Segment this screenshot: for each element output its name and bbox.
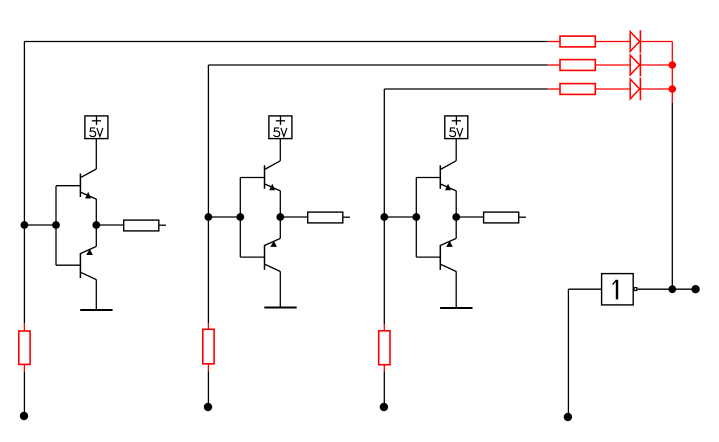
transistor Q3 (upper) [265,161,281,191]
wire output node to Q6 [455,217,457,239]
wire U1 input vertical [567,289,569,417]
wire Q3 emitter to output node [279,191,281,217]
terminal dot circuit 1 [20,412,28,420]
resistor R5 (red) [203,329,214,364]
wire R9 to D3 (red) [595,88,630,90]
transistor Q4 (lower) [265,238,281,271]
wire base stub Q1 [56,185,80,187]
wire R7 left pin stub (red) [548,41,560,43]
junction output node circuit 2 [276,213,284,221]
wire OR rail vertical (red segment) [671,42,673,104]
transistor Q2 (lower) [80,246,96,279]
resistor R8 (red) [560,60,595,71]
wire Q6 to ground [455,271,457,308]
wire base stub Q5 [416,177,440,179]
wire R5 bottom pin stub (red) [207,364,209,371]
wire V2 to Q3 collector [279,139,281,161]
junction base tie circuit 1 [52,221,60,229]
5V source V3 [445,116,468,139]
wire R8 to D2 (red) [595,64,630,66]
resistor R6 (red) [379,331,390,365]
resistor R2 [308,212,343,223]
wire R7 to D1 (red) [595,41,630,43]
wire OR rail to output terminal [672,288,695,290]
resistor R9 (red) [560,84,595,95]
wire OR rail vertical (black segment) [671,103,673,289]
wire input rail circuit 1 (vertical x=24) [23,42,25,324]
ground circuit 1 [80,309,112,311]
resistor R4 (red) [19,331,30,364]
wire input to base tie circuit 2 [208,216,240,218]
wire output node to Q2 [95,225,97,247]
junction rail circuit 3 [380,213,388,221]
wire base tie Q1/Q2 (vertical x=56) [55,186,57,266]
wire R3 right stub [519,216,526,218]
wire R4 to terminal [23,372,25,416]
wire V1 to Q1 collector [95,139,97,169]
wire D1 to OR rail (red) [640,41,672,43]
wire input to base tie circuit 3 [384,216,416,218]
junction D3 on OR rail (red) [669,85,677,93]
junction D2 on OR rail (red) [669,61,677,69]
diode D1 (red) [630,30,640,53]
5V source V2 [269,116,292,139]
wire input to base tie circuit 1 [24,224,56,226]
wire U1 output [637,288,672,290]
junction output node circuit 1 [92,221,100,229]
wire base stub Q2 [56,264,80,266]
ground circuit 2 [264,306,296,308]
wire R1 right stub [159,224,166,226]
wire input rail circuit 2 (vertical x=208) [207,65,209,323]
wire R5 to terminal [207,371,209,407]
wire net IN3 horizontal (input 3 to R9) [384,88,548,90]
wire Q2 to ground [95,279,97,310]
wire rail to R5 (red pin stub) [207,323,209,329]
junction U1 output / OR rail [668,285,676,293]
diode D3 (red) [630,78,640,101]
wire base stub Q6 [416,256,440,258]
wire R9 left pin stub (red) [548,88,560,90]
wire output node to R2 [280,216,307,218]
wire R6 to terminal [383,372,385,408]
wire R2 right stub [343,216,350,218]
wire input rail circuit 3 (vertical x=384) [383,89,385,324]
wire R6 bottom pin stub (red) [383,365,385,372]
transistor Q5 (upper) [440,161,456,191]
junction output node circuit 3 [452,213,460,221]
transistor Q6 (lower) [440,238,456,271]
wire output node to Q4 [279,217,281,239]
resistor R7 (red) [560,36,595,47]
wire net IN1 horizontal (input 1 to R7) [24,41,547,43]
terminal dot circuit 3 [380,403,388,411]
terminal dot output [691,285,699,293]
diode D2 (red) [630,54,640,77]
transistor Q1 (upper) [80,169,96,199]
wire Q4 to ground [279,271,281,307]
junction rail circuit 1 [21,221,29,229]
resistor R1 [124,220,159,231]
ground circuit 3 [440,307,472,309]
wire Q5 emitter to output node [455,191,457,217]
wire base tie Q3/Q4 (vertical x=240) [239,178,241,258]
wire U1 input horizontal [568,288,601,290]
wire rail to R6 (red pin stub) [383,324,385,331]
resistor R3 [484,212,519,223]
wire output node to R3 [456,216,483,218]
terminal dot circuit 2 [204,403,212,411]
buffer gate U1 (IEC '1' symbol with inverting bubble) [602,274,637,305]
wire net IN2 horizontal (input 2 to R8) [208,64,547,66]
wire D3 to OR rail (red) [640,88,672,90]
wire rail to R4 (red pin stub) [23,323,25,331]
wire R8 left pin stub (red) [548,64,560,66]
wire base stub Q3 [240,177,264,179]
5V source V1 [85,116,108,139]
wire base stub Q4 [240,256,264,258]
wire output node to R1 [96,224,123,226]
junction base tie circuit 3 [412,213,420,221]
junction rail circuit 2 [205,213,213,221]
wire V3 to Q5 collector [455,139,457,161]
junction base tie circuit 2 [236,213,244,221]
wire base tie Q5/Q6 (vertical x=416) [415,178,417,258]
wire D2 to OR rail (red) [640,64,672,66]
terminal dot U1 input [564,413,572,421]
wire Q1 emitter to output node [95,199,97,225]
wire R4 bottom pin stub (red) [23,364,25,371]
